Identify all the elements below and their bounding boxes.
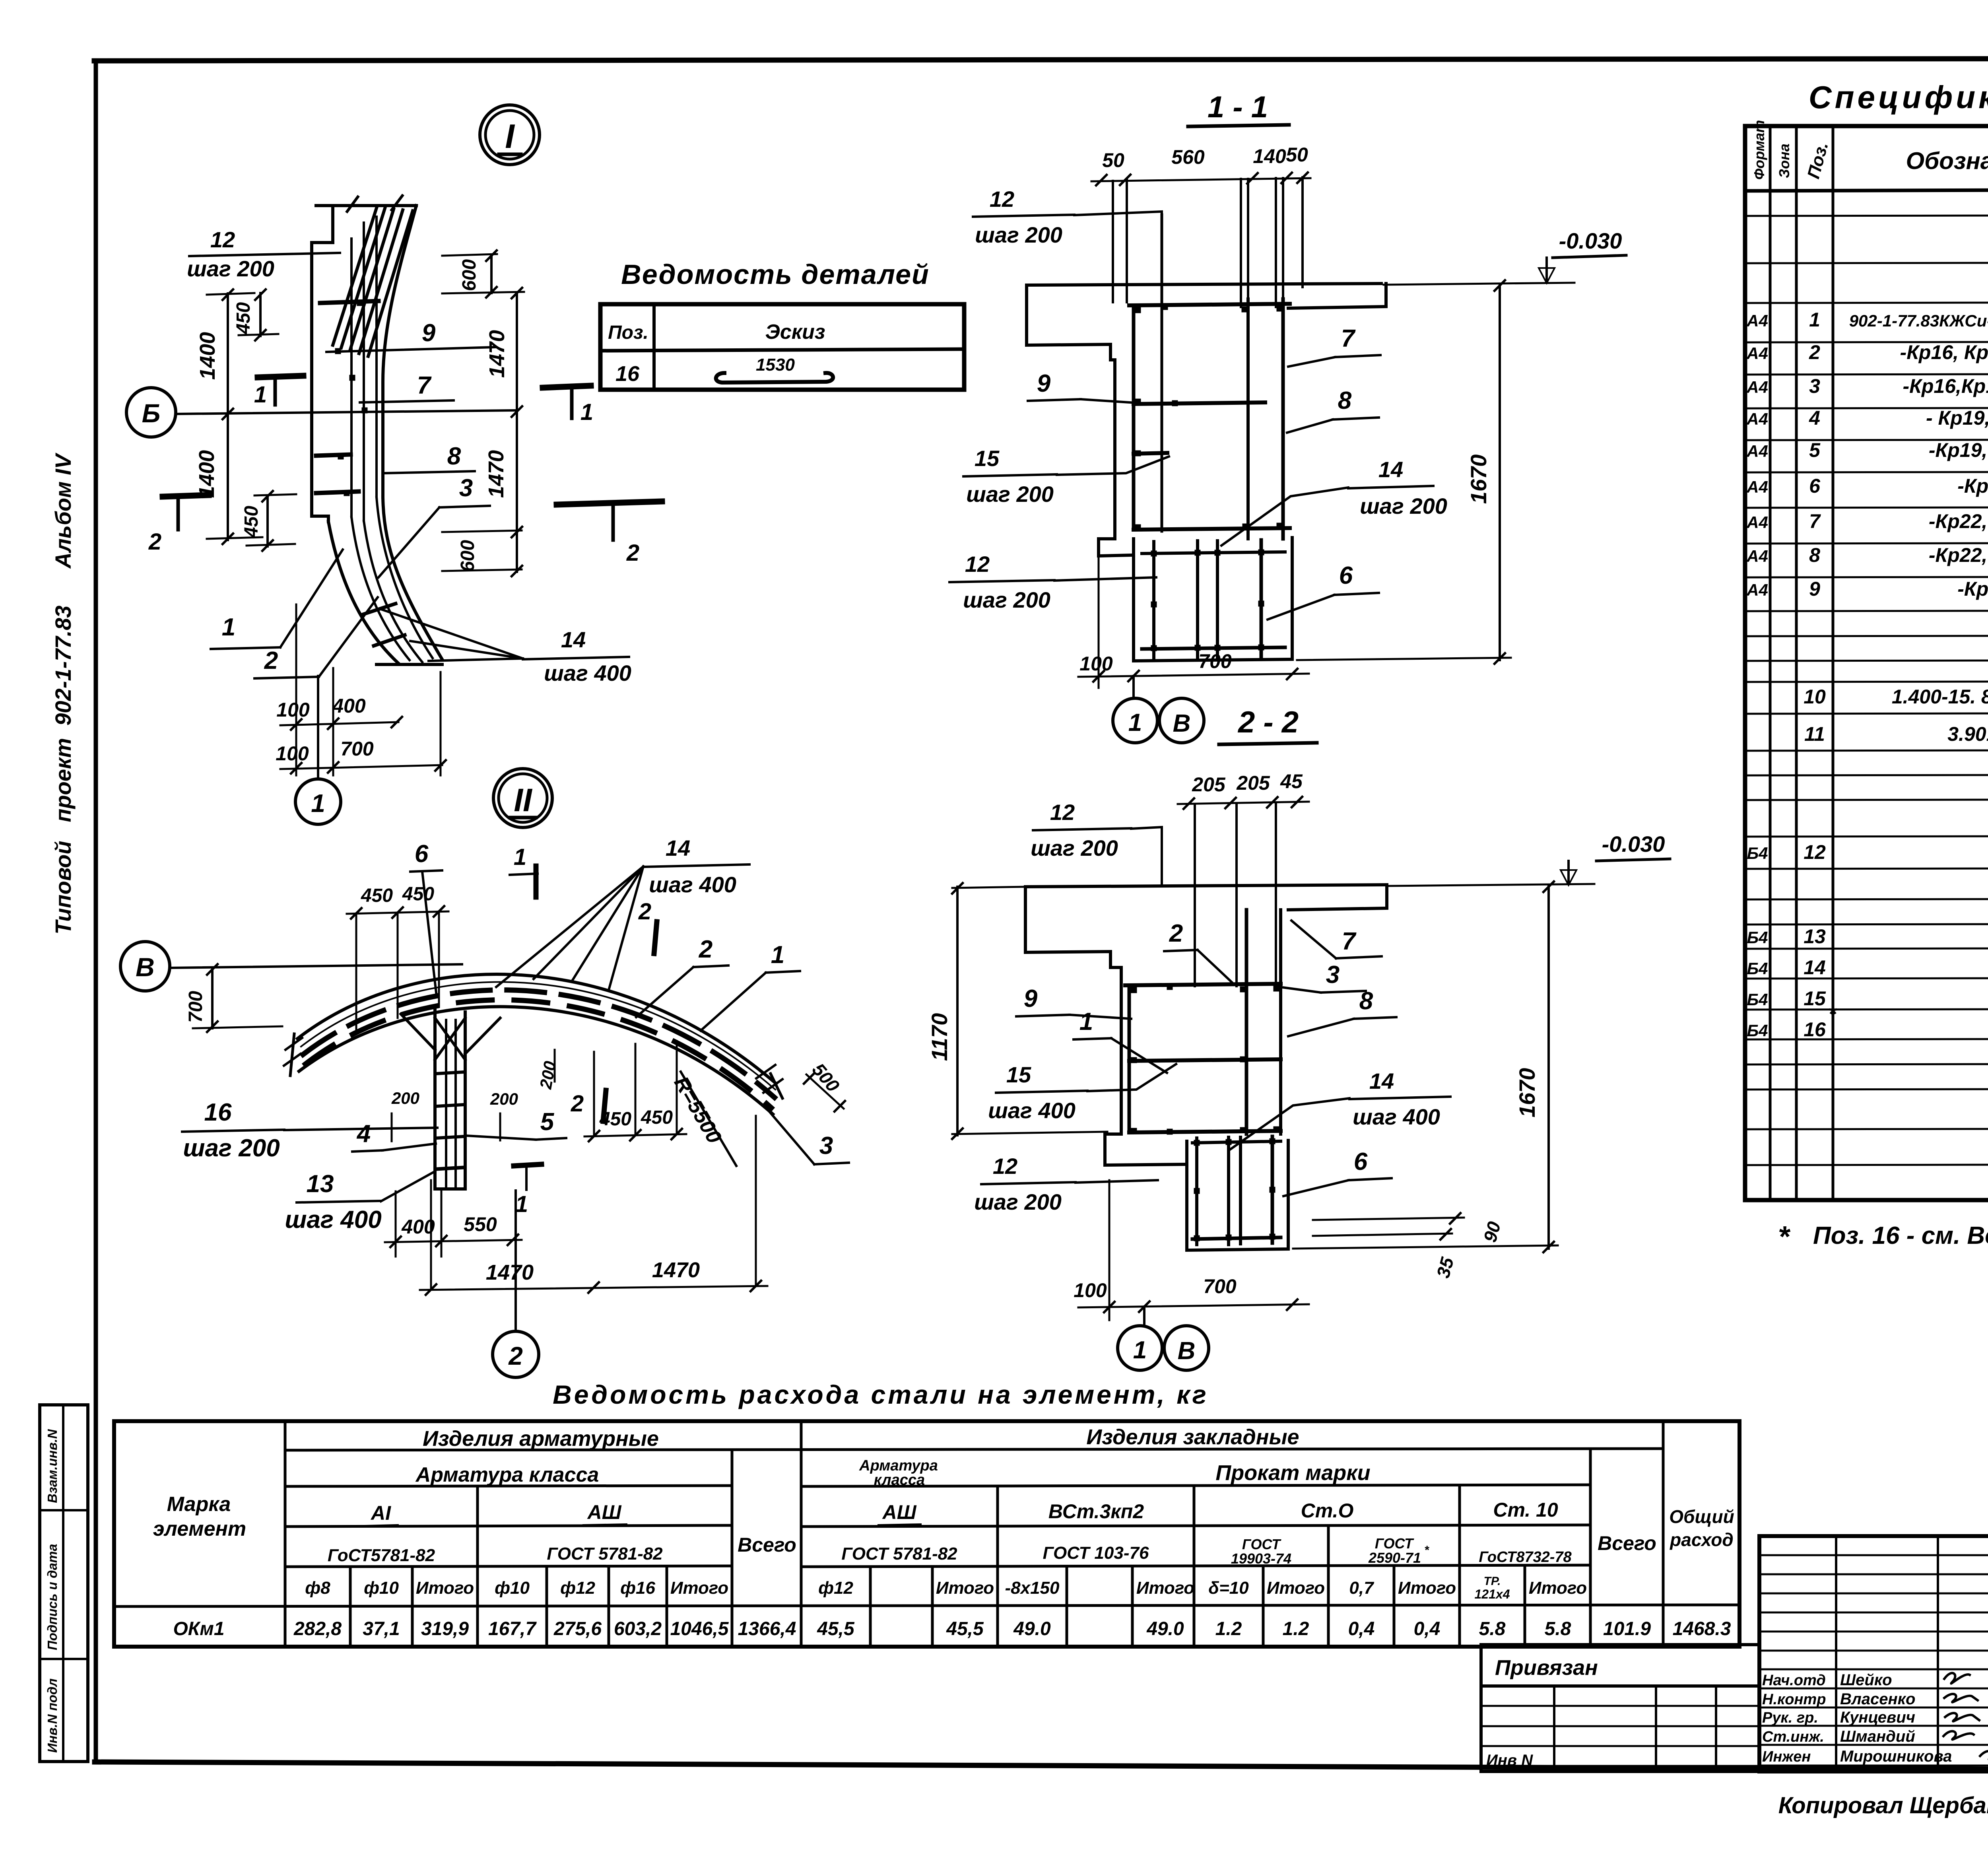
svg-text:450: 450: [233, 302, 254, 334]
svg-text:*: *: [1778, 1220, 1791, 1253]
dim 1670 section 1-1: [1499, 284, 1501, 660]
svg-text:1.2: 1.2: [1283, 1618, 1309, 1639]
svg-text:АI: АI: [370, 1502, 391, 1524]
svg-text:Итого: Итого: [1267, 1578, 1325, 1598]
horizontal cage bars detail I: [320, 301, 379, 303]
svg-text:205: 205: [1236, 772, 1270, 794]
svg-text:Итого: Итого: [670, 1578, 728, 1598]
svg-text:Ведомость деталей: Ведомость деталей: [621, 259, 930, 290]
svg-text:Б4: Б4: [1747, 928, 1768, 947]
svg-text:12: 12: [210, 227, 235, 252]
svg-text:121х4: 121х4: [1475, 1587, 1510, 1601]
svg-text:А4: А4: [1746, 311, 1768, 330]
svg-text:1: 1: [311, 789, 325, 818]
section mark 1 right: [543, 386, 591, 388]
axis line Б: [126, 388, 176, 437]
svg-text:шаг 400: шаг 400: [649, 872, 736, 897]
svg-text:3: 3: [819, 1132, 833, 1160]
svg-text:Ст. 10: Ст. 10: [1493, 1499, 1558, 1521]
svg-text:0,4: 0,4: [1348, 1618, 1375, 1639]
svg-text:560: 560: [1171, 146, 1205, 168]
svg-text:шаг 200: шаг 200: [975, 222, 1062, 247]
привязан block: [1481, 1645, 1759, 1771]
svg-text:2: 2: [508, 1342, 523, 1370]
svg-text:АШ: АШ: [586, 1501, 621, 1523]
svg-text:1670: 1670: [1514, 1068, 1540, 1118]
svg-text:15: 15: [1804, 987, 1826, 1010]
svg-text:А4: А4: [1746, 581, 1768, 599]
svg-text:19903-74: 19903-74: [1231, 1550, 1291, 1567]
svg-text:-0.030: -0.030: [1559, 228, 1622, 253]
svg-text:450: 450: [402, 884, 434, 905]
svg-text:2: 2: [264, 647, 278, 674]
svg-text:Б4: Б4: [1747, 959, 1768, 978]
svg-text:*: *: [1828, 1002, 1837, 1026]
dim 450 lower detail I: [266, 495, 269, 546]
svg-text:А4: А4: [1746, 513, 1768, 532]
svg-text:-8х150: -8х150: [1005, 1578, 1060, 1598]
svg-text:2: 2: [638, 899, 651, 925]
svg-text:шаг 200: шаг 200: [966, 482, 1054, 507]
svg-text:1: 1: [580, 399, 593, 425]
view marker I: [480, 105, 540, 165]
axis circles 1 and В section 2-2: [1143, 1307, 1145, 1325]
svg-text:50: 50: [1286, 144, 1308, 166]
svg-text:Итого: Итого: [416, 1578, 474, 1598]
dim 450 upper detail I: [259, 293, 262, 336]
svg-text:1: 1: [1079, 1008, 1093, 1035]
svg-text:45: 45: [1280, 770, 1303, 793]
svg-text:45,5: 45,5: [817, 1618, 855, 1639]
svg-text:Власенко: Власенко: [1840, 1690, 1915, 1708]
svg-text:700: 700: [185, 991, 206, 1023]
svg-text:1: 1: [514, 844, 526, 870]
svg-text:13: 13: [307, 1170, 334, 1198]
svg-text:9: 9: [422, 319, 436, 347]
svg-text:1366,4: 1366,4: [738, 1618, 796, 1639]
svg-text:7: 7: [417, 372, 432, 399]
svg-text:Б: Б: [142, 398, 161, 428]
svg-text:200: 200: [536, 1060, 559, 1091]
dim 500 drawing II: [806, 1074, 844, 1109]
dims 450 450 right drawing II: [584, 1134, 686, 1136]
dim 600 upper-right detail I: [490, 254, 493, 293]
svg-text:-Кр24: -Кр24: [1957, 578, 1988, 600]
svg-text:ГОСТ: ГОСТ: [1375, 1535, 1414, 1552]
svg-text:319,9: 319,9: [421, 1618, 469, 1639]
svg-text:4: 4: [356, 1120, 371, 1148]
svg-text:Прокат марки: Прокат марки: [1215, 1461, 1370, 1485]
bottom dims section 1-1: [1078, 674, 1309, 677]
svg-text:I: I: [505, 118, 515, 155]
svg-text:450: 450: [241, 506, 262, 538]
svg-text:-Кр22, Кр23: -Кр22, Кр23: [1929, 510, 1988, 532]
svg-text:Обозначение: Обозначение: [1906, 148, 1988, 174]
svg-text:-Кр16,Кр17, Кр18: -Кр16,Кр17, Кр18: [1903, 375, 1988, 397]
svg-text:700: 700: [1198, 650, 1232, 672]
svg-text:2 - 2: 2 - 2: [1237, 705, 1299, 739]
svg-text:Б4: Б4: [1747, 844, 1768, 862]
dims 1470 1470 drawing II: [420, 1286, 767, 1290]
svg-text:Ст.О: Ст.О: [1301, 1500, 1354, 1522]
rebar verticals section 2-2: [1194, 804, 1196, 986]
svg-text:2: 2: [571, 1091, 584, 1117]
svg-text:Шейко: Шейко: [1840, 1671, 1892, 1689]
svg-text:2: 2: [1809, 341, 1820, 363]
svg-text:450: 450: [641, 1107, 673, 1128]
axis circle 2 drawing II: [514, 1191, 517, 1331]
svg-text:100: 100: [276, 742, 309, 765]
title block left grid: [1759, 1554, 1988, 1556]
svg-text:3: 3: [1326, 961, 1340, 989]
svg-text:Изделия закладные: Изделия закладные: [1086, 1425, 1299, 1449]
svg-text:-Кр21: -Кр21: [1957, 475, 1988, 497]
svg-text:Инв.N подл: Инв.N подл: [45, 1678, 60, 1753]
svg-text:11: 11: [1804, 723, 1825, 745]
svg-text:А4: А4: [1746, 378, 1768, 396]
svg-text:-Кр16, Кр17, Кр18: -Кр16, Кр17, Кр18: [1900, 341, 1988, 363]
svg-text:Зона: Зона: [1776, 144, 1792, 178]
svg-text:ф12: ф12: [818, 1578, 853, 1598]
section mark 2-2 lower-left: [163, 495, 209, 497]
svg-text:8: 8: [447, 443, 461, 470]
svg-text:II: II: [514, 782, 533, 818]
svg-text:12: 12: [993, 1154, 1017, 1179]
svg-text:ОКм1: ОКм1: [173, 1618, 224, 1639]
concrete outline section 2-2: [1025, 885, 1387, 887]
arc outline drawing II: [297, 974, 776, 1084]
axis circle В drawing II: [120, 942, 170, 991]
svg-text:АШ: АШ: [881, 1501, 916, 1523]
svg-text:2: 2: [148, 529, 161, 555]
dim 700 drawing II: [211, 968, 214, 1028]
braces at column top drawing II: [401, 1014, 435, 1050]
svg-text:8: 8: [1809, 544, 1820, 566]
svg-text:600: 600: [459, 259, 480, 291]
svg-text:Марка: Марка: [167, 1493, 231, 1516]
svg-text:9: 9: [1024, 985, 1038, 1012]
dims 400 550 drawing II: [385, 1240, 522, 1242]
rebar curves detail I: [350, 239, 353, 517]
svg-text:1470: 1470: [652, 1258, 700, 1282]
svg-text:37,1: 37,1: [363, 1618, 400, 1639]
section mark 1 bottom drawing II: [514, 1164, 542, 1166]
svg-text:-Кр22, Кр23: -Кр22, Кр23: [1929, 544, 1988, 566]
svg-text:14: 14: [1369, 1068, 1394, 1094]
svg-text:Н.контр: Н.контр: [1762, 1691, 1826, 1708]
footing cage section 2-2: [1192, 1141, 1281, 1143]
svg-text:Шмандий: Шмандий: [1840, 1728, 1915, 1745]
svg-text:101.9: 101.9: [1603, 1618, 1651, 1639]
svg-text:4: 4: [1809, 407, 1820, 429]
svg-text:550: 550: [464, 1213, 497, 1235]
top dims 50 560 140 50 section 1-1: [1091, 178, 1310, 181]
svg-text:шаг 200: шаг 200: [1031, 835, 1118, 860]
svg-text:Арматура класса: Арматура класса: [415, 1463, 599, 1486]
svg-text:282,8: 282,8: [293, 1618, 342, 1639]
svg-text:В: В: [1178, 1337, 1196, 1365]
svg-text:Привязан: Привязан: [1495, 1656, 1598, 1680]
svg-text:2: 2: [626, 540, 639, 566]
svg-text:Копировал Щербакова: Копировал Щербакова: [1778, 1793, 1988, 1818]
svg-text:1: 1: [1128, 709, 1142, 736]
svg-text:шаг 200: шаг 200: [974, 1189, 1062, 1214]
svg-text:5.8: 5.8: [1545, 1618, 1571, 1639]
svg-text:200: 200: [490, 1090, 518, 1108]
svg-text:1: 1: [1133, 1336, 1147, 1364]
svg-text:элемент: элемент: [153, 1517, 246, 1540]
svg-text:Итого: Итого: [1529, 1578, 1587, 1598]
svg-text:ГОСТ: ГОСТ: [1242, 1536, 1281, 1552]
svg-text:15: 15: [1006, 1062, 1031, 1087]
svg-text:600: 600: [457, 540, 478, 572]
svg-text:1400: 1400: [195, 450, 219, 498]
svg-text:500: 500: [808, 1059, 844, 1096]
svg-text:Поз.: Поз.: [608, 322, 648, 343]
svg-text:6: 6: [1354, 1148, 1368, 1175]
svg-text:7: 7: [1809, 510, 1821, 532]
svg-text:14: 14: [1804, 956, 1826, 979]
svg-text:14: 14: [666, 835, 690, 860]
svg-text:1670: 1670: [1466, 455, 1491, 504]
svg-text:А4: А4: [1746, 344, 1768, 363]
view marker II: [493, 769, 552, 827]
bottom-left inventory strip: [40, 1405, 88, 1762]
svg-text:Взам.инв.N: Взам.инв.N: [45, 1429, 60, 1503]
svg-text:2: 2: [699, 936, 712, 963]
svg-text:ф8: ф8: [305, 1578, 330, 1598]
svg-text:8: 8: [1359, 987, 1373, 1015]
svg-text:5: 5: [540, 1108, 555, 1136]
svg-text:А4: А4: [1746, 478, 1768, 496]
svg-text:49.0: 49.0: [1013, 1618, 1051, 1639]
svg-text:шаг 400: шаг 400: [285, 1206, 381, 1233]
svg-text:Эскиз: Эскиз: [765, 320, 825, 344]
svg-text:Б4: Б4: [1747, 1021, 1768, 1040]
svg-text:шаг 400: шаг 400: [988, 1098, 1076, 1123]
svg-text:ф10: ф10: [495, 1578, 530, 1598]
svg-text:1530: 1530: [756, 355, 795, 375]
svg-text:*: *: [1424, 1544, 1429, 1557]
svg-text:Подпись и дата: Подпись и дата: [45, 1544, 60, 1651]
svg-text:6: 6: [1809, 475, 1821, 497]
wall cage section 2-2: [1125, 984, 1281, 985]
dims 90 and 35 section 2-2: [1313, 1218, 1464, 1220]
svg-text:1: 1: [254, 382, 267, 408]
svg-text:5: 5: [1809, 439, 1821, 461]
diagonal bars pos 12 detail I: [333, 208, 377, 345]
section mark 2 right: [557, 501, 662, 505]
svg-text:3: 3: [459, 474, 473, 502]
svg-text:ГоСТ5781-82: ГоСТ5781-82: [328, 1546, 435, 1565]
svg-text:В: В: [1173, 710, 1191, 737]
svg-text:ТР.: ТР.: [1484, 1575, 1501, 1588]
svg-text:49.0: 49.0: [1146, 1618, 1184, 1639]
wall outline detail I: [316, 204, 416, 207]
svg-text:ГОСТ 5781-82: ГОСТ 5781-82: [841, 1544, 957, 1564]
svg-text:9: 9: [1037, 370, 1051, 397]
frame border: [94, 60, 98, 1762]
rebar verticals above slab section 1-1: [1112, 181, 1114, 302]
svg-text:100: 100: [1074, 1279, 1107, 1301]
svg-text:6: 6: [415, 840, 429, 868]
svg-text:-0.030: -0.030: [1602, 831, 1665, 857]
svg-text:9: 9: [1809, 578, 1820, 600]
svg-text:расход: расход: [1669, 1529, 1734, 1550]
svg-text:Поз.: Поз.: [1804, 140, 1832, 181]
svg-text:Инжен: Инжен: [1762, 1748, 1811, 1765]
svg-text:Ведомость расхода стали на: Ведомость расхода стали на элемент, кг: [553, 1380, 1209, 1409]
svg-text:1: 1: [222, 614, 235, 641]
svg-text:7: 7: [1342, 928, 1357, 955]
title block outer box: [1759, 1536, 1988, 1771]
svg-text:1470: 1470: [484, 450, 508, 498]
svg-text:шаг 200: шаг 200: [1360, 493, 1447, 519]
svg-text:200: 200: [391, 1089, 419, 1107]
svg-text:ГОСТ 103-76: ГОСТ 103-76: [1043, 1543, 1149, 1563]
svg-text:класса: класса: [874, 1472, 925, 1488]
svg-text:2: 2: [1169, 920, 1183, 947]
svg-text:12: 12: [965, 552, 990, 577]
svg-text:шаг 200: шаг 200: [187, 256, 274, 281]
svg-text:13: 13: [1804, 925, 1826, 948]
svg-text:Всего: Всего: [1598, 1532, 1656, 1554]
svg-text:1400: 1400: [196, 332, 219, 380]
section mark 1-1 upper: [258, 376, 303, 377]
svg-text:0,7: 0,7: [1349, 1578, 1375, 1598]
footing cage section 1-1: [1142, 552, 1285, 554]
bottom dims section 2-2: [1078, 1304, 1309, 1307]
svg-text:Формат: Формат: [1751, 120, 1767, 180]
svg-text:Изделия арматурные: Изделия арматурные: [423, 1427, 659, 1451]
svg-text:1.400-15. 81.120 -43: 1.400-15. 81.120 -43: [1892, 686, 1988, 708]
svg-text:ВСт.3кп2: ВСт.3кп2: [1048, 1500, 1144, 1523]
top dims 205 205 45 section 2-2: [1178, 802, 1309, 804]
specification table grid: [1745, 126, 1988, 1200]
svg-text:Ст.инж.: Ст.инж.: [1762, 1729, 1824, 1745]
svg-text:Мирошникова: Мирошникова: [1840, 1748, 1952, 1765]
radius R=5500 drawing II: [681, 1072, 736, 1166]
svg-text:400: 400: [401, 1216, 435, 1238]
svg-text:7: 7: [1341, 325, 1356, 352]
svg-text:Всего: Всего: [738, 1534, 796, 1556]
dim chain 1470 right detail I: [516, 292, 518, 572]
svg-text:167,7: 167,7: [488, 1618, 537, 1639]
svg-text:100: 100: [1079, 653, 1113, 675]
svg-text:16: 16: [1804, 1018, 1826, 1041]
svg-text:1: 1: [771, 941, 784, 969]
svg-text:Общий: Общий: [1669, 1506, 1734, 1527]
svg-text:Итого: Итого: [1136, 1578, 1194, 1598]
svg-text:100: 100: [276, 699, 310, 721]
svg-text:-Кр19, Кр20: -Кр19, Кр20: [1929, 439, 1988, 461]
staple sketch pos 16: [716, 373, 833, 383]
svg-text:10: 10: [1804, 686, 1826, 708]
svg-text:14: 14: [561, 627, 586, 652]
svg-text:35: 35: [1433, 1255, 1458, 1280]
dim 1400/1400 detail I: [227, 293, 229, 540]
svg-text:3.901- 5: 3.901- 5: [1947, 723, 1988, 745]
svg-text:В: В: [136, 952, 155, 982]
svg-text:шаг 400: шаг 400: [1353, 1104, 1440, 1129]
signatures squiggles: [1944, 1673, 1970, 1683]
svg-text:1.2: 1.2: [1215, 1618, 1242, 1639]
svg-text:Кунцевич: Кунцевич: [1840, 1709, 1915, 1726]
signature rows: [1759, 1669, 1988, 1670]
svg-text:16: 16: [615, 362, 640, 386]
svg-text:шаг 200: шаг 200: [183, 1134, 280, 1162]
svg-text:Итого: Итого: [936, 1578, 994, 1598]
svg-text:16: 16: [204, 1099, 232, 1126]
svg-text:3: 3: [1809, 375, 1820, 397]
svg-text:1: 1: [515, 1191, 528, 1217]
svg-text:- Кр19, Кр20: - Кр19, Кр20: [1926, 407, 1988, 429]
dim 1670 section 2-2: [1547, 885, 1550, 1249]
steel table grid: [114, 1421, 1739, 1647]
svg-text:12: 12: [990, 186, 1014, 212]
wall cage section 1-1: [1129, 304, 1290, 305]
svg-text:45,5: 45,5: [946, 1618, 984, 1639]
svg-text:Б4: Б4: [1747, 990, 1768, 1009]
svg-text:902-1-77.83КЖСи-Кр16,Кр17,Кр18: 902-1-77.83КЖСи-Кр16,Кр17,Кр18: [1849, 311, 1988, 330]
concrete outline section 1-1: [1027, 284, 1381, 285]
svg-text:450: 450: [361, 885, 393, 906]
svg-text:5.8: 5.8: [1479, 1618, 1506, 1639]
svg-text:Рук. гр.: Рук. гр.: [1762, 1709, 1818, 1726]
svg-text:А4: А4: [1746, 547, 1768, 565]
svg-text:400: 400: [332, 695, 366, 717]
svg-text:50: 50: [1102, 149, 1124, 171]
svg-text:15: 15: [975, 446, 1000, 471]
svg-text:90: 90: [1479, 1219, 1505, 1244]
svg-text:шаг 200: шаг 200: [963, 587, 1050, 612]
axis circles 1 and В section 1-1: [1132, 676, 1135, 699]
svg-text:шаг 400: шаг 400: [544, 660, 631, 686]
svg-text:Типовой проект 902-1-77.83: Типовой проект 902-1-77.83 Альбом IV: [50, 452, 76, 934]
svg-text:ф16: ф16: [620, 1578, 655, 1598]
svg-text:ГоСТ8732-78: ГоСТ8732-78: [1479, 1549, 1572, 1566]
svg-text:12: 12: [1804, 841, 1826, 863]
parts list table: [600, 304, 964, 390]
svg-text:6: 6: [1339, 562, 1353, 589]
svg-text:1470: 1470: [485, 330, 509, 378]
svg-text:1 - 1: 1 - 1: [1208, 90, 1268, 124]
svg-text:1468.3: 1468.3: [1673, 1618, 1731, 1639]
svg-text:14: 14: [1378, 457, 1403, 482]
svg-text:Инв N: Инв N: [1486, 1752, 1533, 1769]
svg-text:Спецификация кольца ОКм1: Спецификация кольца ОКм1: [1809, 80, 1988, 115]
svg-text:Поз. 16 - см. Ведомость дета: Поз. 16 - см. Ведомость деталей: [1813, 1222, 1988, 1249]
svg-text:А4: А4: [1746, 410, 1768, 428]
svg-text:ф10: ф10: [364, 1578, 399, 1598]
crossbars pos 14 detail I: [363, 604, 396, 614]
svg-text:А4: А4: [1746, 442, 1768, 460]
svg-text:2590-71: 2590-71: [1368, 1550, 1421, 1566]
svg-text:140: 140: [1253, 145, 1286, 167]
svg-text:1170: 1170: [927, 1013, 952, 1061]
dims 450 450 top-left drawing II: [347, 911, 448, 914]
svg-text:12: 12: [1050, 800, 1075, 825]
svg-text:Итого: Итого: [1398, 1578, 1456, 1598]
bottom dims detail I: [280, 722, 398, 725]
svg-text:700: 700: [1203, 1275, 1237, 1298]
svg-text:R=5500: R=5500: [670, 1072, 726, 1147]
svg-text:ГОСТ 5781-82: ГОСТ 5781-82: [547, 1544, 663, 1564]
svg-text:Нач.отд: Нач.отд: [1762, 1672, 1826, 1689]
svg-text:0,4: 0,4: [1414, 1618, 1441, 1639]
svg-text:δ=10: δ=10: [1208, 1578, 1249, 1598]
svg-text:8: 8: [1338, 387, 1352, 414]
